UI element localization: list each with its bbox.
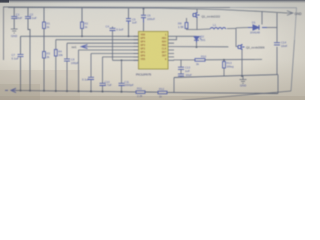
wire: riser x20.5 with C7 — [20, 36, 22, 90]
wire below R1 — [43, 29, 45, 52]
node dot C5 joins pin1 rail — [128, 35, 130, 37]
diode D1 drop — [261, 12, 263, 25]
corner shade — [0, 84, 40, 100]
inductor L1 — [197, 28, 236, 29]
wire below D2 to Q2 base rail — [196, 43, 198, 48]
mid-right rail from IC pin — [174, 58, 262, 61]
wire from diode right down — [267, 27, 277, 29]
capacitor C8 — [64, 59, 70, 61]
wire: C2 drop — [27, 7, 29, 16]
bottom bus — [16, 90, 278, 93]
dark smudge top-left — [0, 0, 9, 3]
fan wire to pin 5 (from connector arrow) — [88, 46, 139, 48]
IC left pin stubs — [134, 36, 139, 60]
fan wire to pin 8 — [113, 59, 139, 61]
wire: right vertical with C14 — [276, 13, 278, 75]
top supply bus — [8, 8, 287, 14]
wire: riser x91 with C9 — [90, 54, 92, 92]
lower mid rail — [174, 75, 278, 78]
wire: rail end down to bus — [277, 75, 279, 94]
wire below R13 to lower rail — [223, 68, 225, 76]
capacitor C5 (polarized, blue) — [126, 19, 131, 24]
IC U1 body — [139, 32, 169, 70]
capacitor C12 — [178, 74, 184, 76]
sheet border — [4, 7, 231, 60]
capacitor C1 — [11, 17, 17, 19]
wire: R1 drop — [43, 7, 45, 22]
bottom-left darker corner — [0, 70, 80, 100]
fan wire to pin 3 — [67, 42, 139, 44]
wire: C5 drop — [128, 8, 130, 18]
fan wire to pin 2 — [56, 39, 139, 41]
ground below C1 — [11, 29, 18, 33]
resistor R2 — [81, 22, 84, 29]
LED D2 — [194, 36, 201, 42]
wire: riser x121.5 with C11 — [121, 60, 123, 92]
capacitor C4 — [110, 28, 116, 30]
wire below R8 — [187, 29, 190, 30]
ground on lower rail — [242, 76, 244, 80]
diode D1 — [248, 25, 267, 30]
vignette overlay — [0, 0, 305, 100]
IC U1 left pin names — [141, 33, 146, 61]
capacitor C10 — [100, 83, 106, 85]
capacitor C7 — [18, 54, 24, 56]
wire: cap chain — [180, 60, 182, 78]
resistor R4 — [54, 50, 57, 57]
transistor Q2 — [238, 44, 245, 50]
resistor R8 — [186, 18, 188, 23]
wire: pin2 step — [174, 36, 177, 39]
capacitor C6 (polarized, blue) — [141, 15, 146, 22]
wire below C6 to IC top — [143, 23, 145, 32]
wire below C2 down to bottom bus — [28, 18, 30, 90]
fan wire to pin 4 — [79, 49, 139, 51]
wire: C6 drop — [143, 9, 145, 15]
capacitor C11 — [119, 83, 125, 85]
wire below Q2 — [241, 50, 243, 76]
wire R3 to bottom bus — [43, 58, 45, 91]
resistor R10 inline — [195, 59, 205, 62]
wire: pin1 to D2 — [174, 35, 197, 37]
wire below R2 to pin1 rail — [81, 29, 83, 37]
wire below Q1 — [190, 18, 198, 30]
wire: C1 drop — [13, 7, 15, 16]
fan wire to pin 7 — [103, 56, 139, 58]
fan wire to pin 6 — [91, 53, 139, 55]
IC right pin stubs — [168, 36, 174, 60]
wire from IC to Q2 base — [174, 46, 228, 48]
wire: riser x102.5 with C10 — [102, 57, 104, 92]
bottom shadow edge — [0, 96, 305, 100]
node dot on bus — [143, 8, 145, 10]
connector arrow SW (left pointing) — [81, 45, 87, 49]
capacitor C2 — [25, 17, 31, 19]
transistor Q1 — [193, 12, 200, 18]
wire below C5 — [128, 24, 130, 36]
IC U1 right pin numbers — [162, 33, 167, 61]
bus junction dots — [20, 90, 123, 93]
wire: rail down to bottom bus — [173, 78, 175, 93]
resistor R12 inline bottom — [158, 91, 167, 94]
node dot — [223, 59, 225, 61]
connector arrow BAT — [287, 11, 293, 15]
wire: Q2 chain vertical — [236, 28, 238, 46]
photo grain — [0, 0, 305, 100]
wire below C1 — [13, 18, 15, 29]
sheet border bottom — [182, 91, 291, 101]
node dot — [196, 46, 198, 48]
wire: riser x78.5 — [78, 50, 80, 91]
transistor Q1 drop from bus — [196, 9, 198, 12]
wire: R2 drop — [81, 8, 83, 22]
node dot riser joins pin8 wire — [121, 59, 123, 61]
sheet border top-right (faint) — [230, 8, 297, 40]
capacitor C14 — [274, 43, 280, 45]
connector arrow left (bottom-left) — [5, 88, 16, 92]
sheet border right (lower) — [291, 40, 295, 91]
capacitor C9 — [88, 77, 94, 79]
potentiometer R13 — [223, 60, 225, 62]
capacitor C13 — [178, 67, 184, 69]
wire: riser x67 with C8 — [66, 43, 68, 91]
paper background — [0, 0, 305, 100]
node dot R2 joins pin1 rail — [81, 35, 83, 37]
wire: riser x55.8 with R4 — [55, 40, 57, 91]
wire from diode left — [236, 27, 248, 29]
fan wire to pin 1 (long rail) — [21, 35, 139, 37]
dark photo top edge — [0, 0, 305, 4]
wire: C4 chain — [112, 27, 114, 61]
resistor R1 — [43, 22, 46, 29]
resistor R3 — [43, 52, 46, 59]
resistor R11 inline bottom — [136, 91, 145, 94]
node dot lower rail — [241, 75, 243, 77]
